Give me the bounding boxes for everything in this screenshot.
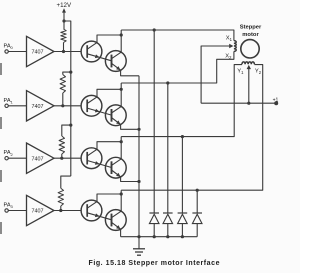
stepper motor body M1: [241, 40, 259, 58]
+12V supply arrow: [62, 8, 66, 21]
wire Q2B emitter to emitter bus: [121, 125, 139, 130]
resistor R3: [59, 136, 64, 158]
coil X center tap arrow: [229, 44, 233, 48]
buffer U1 7407: [27, 36, 55, 66]
node bus4 tee: [196, 189, 199, 192]
wire Q1B collector up: [120, 30, 122, 52]
transistor Q4A: [81, 200, 102, 221]
node collector join ch2: [120, 140, 123, 143]
wire PA2 input: [8, 157, 26, 159]
node +12V motor terminal: [274, 101, 278, 105]
wire Q4B base bar: [111, 214, 113, 227]
wire bus 2: [167, 83, 169, 213]
wire Q3B emitter to emitter bus: [121, 177, 139, 182]
node collector join ch3: [120, 192, 123, 195]
wire Q1A emitter to Q1B base: [87, 54, 111, 61]
wire ch1 collector line to X2: [121, 51, 234, 83]
svg-text:7407: 7407: [32, 209, 44, 215]
svg-text:Y1: Y1: [237, 68, 244, 75]
wire U3 output to base Q3A: [54, 157, 81, 159]
svg-text:7407: 7407: [32, 50, 44, 56]
wire U1 output to base Q1A: [54, 51, 81, 53]
resistor R2: [60, 75, 65, 106]
wire Q3B collector up: [120, 137, 122, 159]
svg-text:Stepper: Stepper: [240, 25, 262, 31]
wire Q4A emitter to Q4B base: [87, 213, 111, 220]
svg-text:7407: 7407: [32, 104, 44, 110]
diode D2: [163, 213, 173, 237]
coil X winding: [234, 41, 236, 52]
buffer U4 7407: [27, 195, 55, 225]
wire Q3B emitter diagonal: [112, 170, 121, 177]
scan edge marks: [0, 63, 2, 234]
svg-text:+1: +1: [273, 97, 279, 103]
diode D3: [178, 213, 188, 237]
wire ch0 collector line to X1: [121, 30, 234, 41]
wire bus 3: [181, 137, 183, 213]
wire feed to R2: [63, 72, 71, 74]
wire Y center tap: [248, 68, 250, 104]
node PA0 input terminal: [5, 50, 8, 53]
node R4-output junction: [59, 209, 62, 212]
wire Q2B collector up: [120, 83, 122, 106]
node emitter bus to rail: [137, 235, 140, 238]
svg-text:X1: X1: [226, 36, 233, 43]
svg-text:PA1: PA1: [4, 98, 14, 105]
transistor Q4B: [105, 210, 126, 231]
wire Q2B emitter diagonal: [112, 118, 121, 125]
svg-text:7407: 7407: [32, 156, 44, 162]
node PA2 input terminal: [5, 157, 8, 160]
wire Q4B emitter to ground rail: [120, 229, 122, 237]
node bus1 tee: [153, 28, 156, 31]
wire Q1B base bar: [111, 55, 113, 68]
wire bus 1: [153, 30, 155, 213]
node feed-R2: [69, 71, 72, 74]
wire +12V feed branch: [64, 21, 71, 176]
node +12V junction: [62, 19, 65, 22]
wire Q3B base bar: [111, 161, 113, 174]
wire feed to R3: [62, 125, 71, 136]
node diode-rail junction: [181, 235, 184, 238]
wire Q2A emitter to Q2B base: [87, 108, 111, 115]
node diode-rail junction: [153, 235, 156, 238]
transistor Q1B: [105, 51, 126, 72]
node Y center tap on +12 line: [247, 102, 250, 105]
node PA1 input terminal: [5, 104, 8, 107]
wire U4 output to base Q4A: [54, 210, 81, 212]
wire PA3 input: [8, 210, 26, 212]
transistor Q1A: [81, 41, 102, 62]
node collector join ch1: [120, 88, 123, 91]
transistor Q3B: [105, 157, 126, 178]
wire PA0 input: [8, 51, 26, 53]
wire Q3A collector: [97, 142, 121, 150]
wire Q2A collector: [97, 89, 121, 97]
resistor R4: [58, 188, 63, 210]
wire emitter bus: [138, 76, 140, 237]
svg-text:PA0: PA0: [4, 44, 14, 51]
wire PA1 input: [8, 105, 26, 107]
svg-text:Y2: Y2: [255, 68, 262, 75]
svg-text:+12V: +12V: [57, 2, 72, 9]
node bus2 tee: [166, 81, 169, 84]
wire ground rail: [121, 236, 198, 238]
wire X center tap: [201, 46, 230, 103]
svg-text:Fig. 15.18 Stepper motor Inter: Fig. 15.18 Stepper motor Interface: [89, 260, 221, 267]
node R1-output junction: [62, 50, 65, 53]
transistor Q3A: [81, 148, 102, 169]
wire Q1B emitter diagonal: [112, 63, 121, 70]
wire Q1A collector: [97, 35, 121, 43]
wire bus 4: [196, 190, 198, 213]
ground: [133, 237, 145, 256]
diode D4: [192, 213, 202, 237]
wire Q4B collector up: [120, 190, 122, 211]
node emitter join ch2: [137, 180, 140, 183]
node collector join ch0: [120, 33, 123, 36]
wire ch3 collector line to Y2: [121, 65, 263, 191]
svg-text:motor: motor: [242, 32, 259, 38]
svg-text:PA2: PA2: [4, 150, 14, 157]
node R3-output junction: [60, 157, 63, 160]
wire Q3A emitter to Q3B base: [87, 161, 111, 168]
wire Q4A collector: [97, 194, 121, 202]
node feed-R3: [69, 124, 72, 127]
svg-text:PA3: PA3: [4, 203, 14, 210]
wire U2 output to base Q2A: [54, 105, 81, 107]
resistor R1: [61, 21, 66, 52]
node R2-output junction: [61, 104, 64, 107]
wire +12V motor supply line: [201, 102, 276, 104]
node diode-rail junction: [166, 235, 169, 238]
wire Q2B base bar: [111, 109, 113, 122]
coil Y center tap arrow: [247, 65, 251, 69]
node PA3 input terminal: [5, 209, 8, 212]
wire feed to R4: [61, 176, 71, 188]
svg-text:X2: X2: [225, 54, 232, 61]
node emitter join ch1: [137, 128, 140, 131]
transistor Q2A: [81, 95, 102, 116]
wire Q1B emitter to emitter bus: [121, 70, 139, 76]
transistor Q2B: [105, 105, 126, 126]
node bus3 tee: [181, 135, 184, 138]
wire Q4B emitter diagonal: [112, 222, 121, 229]
coil Y winding: [242, 62, 254, 64]
buffer U3 7407: [27, 143, 55, 173]
wire ch2 collector line to Y1: [121, 65, 242, 137]
buffer U2 7407: [27, 91, 55, 121]
diode D1: [149, 213, 159, 237]
